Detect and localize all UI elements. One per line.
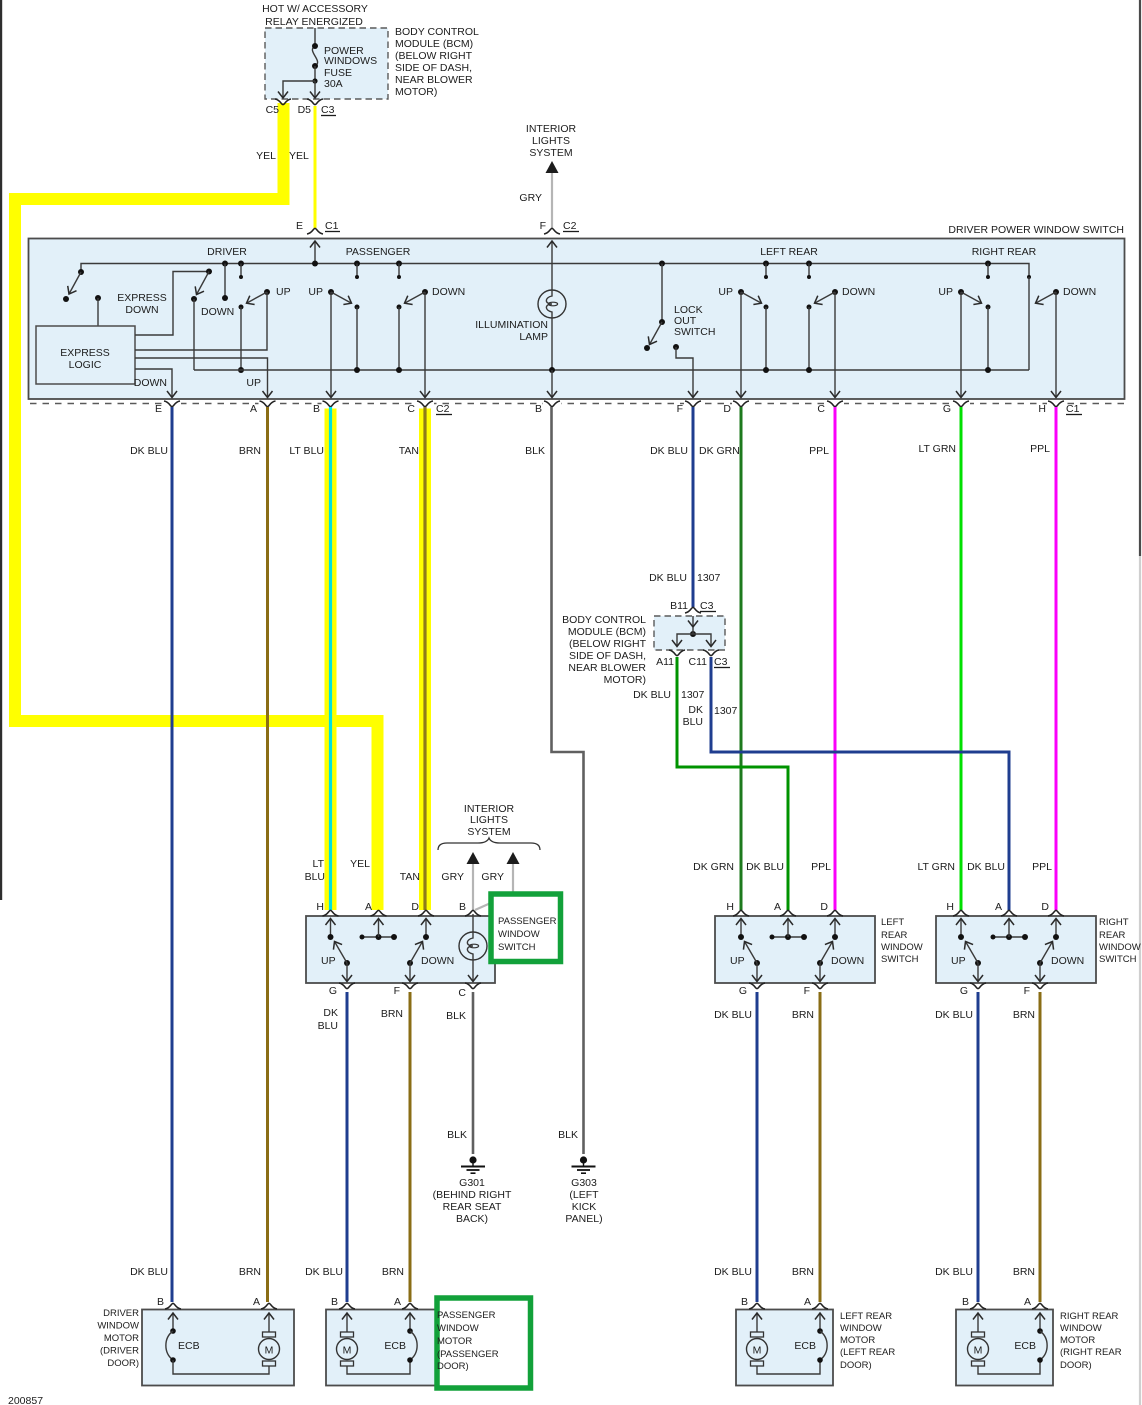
- svg-text:TAN: TAN: [400, 871, 420, 883]
- svg-text:REAR: REAR: [1099, 930, 1126, 941]
- passenger switch illumination lamp: [459, 932, 487, 960]
- svg-text:DOWN: DOWN: [421, 955, 454, 967]
- wire TAN from C/C2 to passenger switch D: [423, 407, 426, 910]
- terminal A11 of BCM: [669, 650, 685, 656]
- yellow highlight band over LT BLU wire B: [325, 406, 337, 911]
- illumination lamp feed from F/C2, arrow up: [551, 241, 553, 264]
- svg-text:NEAR BLOWER: NEAR BLOWER: [395, 74, 473, 86]
- svg-text:DK BLU: DK BLU: [746, 861, 784, 873]
- off-page arrow GRY right: [507, 852, 520, 864]
- wire (drawn green) from BCM A11 to left rear switch A: [677, 657, 788, 910]
- svg-text:DK GRN: DK GRN: [699, 445, 740, 457]
- svg-text:C: C: [407, 403, 415, 415]
- svg-text:M: M: [974, 1345, 983, 1357]
- lock out output contact to terminal F with arrow: [673, 344, 679, 350]
- right rear UP blade: [961, 292, 982, 303]
- svg-text:UP: UP: [321, 955, 336, 967]
- passenger window motor M: [341, 1332, 354, 1337]
- svg-text:D: D: [1041, 901, 1049, 913]
- lock out switch blade: [659, 319, 665, 325]
- terminal B11 / C3 on BCM: [685, 607, 701, 613]
- illumination lamp: [538, 290, 566, 318]
- left rear UP switch pivot to terminal D: [738, 289, 744, 295]
- svg-text:B: B: [741, 1296, 748, 1308]
- svg-text:RELAY ENERGIZED: RELAY ENERGIZED: [265, 16, 363, 28]
- right rear motor bottom link: [978, 1360, 1040, 1374]
- svg-text:M: M: [343, 1345, 352, 1357]
- svg-text:SWITCH: SWITCH: [881, 954, 919, 965]
- left rear motor terminal A: [812, 1303, 828, 1309]
- left rear down lower contact column: [807, 305, 812, 310]
- svg-text:DK BLU: DK BLU: [130, 1266, 168, 1278]
- driver down contact to internal return rail: [193, 299, 195, 370]
- left rear UP blade: [754, 960, 760, 966]
- svg-text:D: D: [723, 403, 731, 415]
- svg-text:BRN: BRN: [792, 1009, 814, 1021]
- passenger switch D leg arrow up: [425, 919, 427, 938]
- wire BRN left rear F to motor A: [819, 992, 822, 1302]
- svg-text:SIDE OF DASH,: SIDE OF DASH,: [569, 650, 646, 662]
- terminal H / C1 bottom: [1048, 401, 1064, 407]
- page right border line (dark upper part): [1139, 0, 1141, 556]
- terminal B bottom (LT BLU): [323, 401, 339, 407]
- svg-text:BLK: BLK: [558, 1129, 578, 1141]
- svg-text:BODY CONTROL: BODY CONTROL: [395, 26, 479, 38]
- passenger switch A leg arrow up: [378, 919, 380, 938]
- driver motor terminal A: [261, 1303, 277, 1309]
- svg-text:F: F: [540, 220, 546, 232]
- left rear switch H leg arrow up: [740, 919, 742, 938]
- page right border line (light lower part): [1139, 556, 1141, 1405]
- internal return rail: [194, 369, 1029, 371]
- svg-text:G: G: [943, 403, 951, 415]
- right rear switch terminal F bottom: [1032, 983, 1048, 989]
- yellow highlight band over TAN wire C: [419, 406, 431, 911]
- svg-text:LIGHTS: LIGHTS: [532, 135, 570, 147]
- left rear switch terminal G bottom: [749, 983, 765, 989]
- svg-text:(LEFT REAR: (LEFT REAR: [840, 1347, 895, 1358]
- svg-text:B: B: [157, 1296, 164, 1308]
- wire from fuse to junction: [314, 66, 316, 81]
- express logic module box: [36, 326, 135, 384]
- svg-text:UP: UP: [308, 286, 323, 298]
- svg-text:BRN: BRN: [381, 1008, 403, 1020]
- svg-text:A: A: [365, 901, 372, 913]
- svg-text:BRN: BRN: [1013, 1009, 1035, 1021]
- svg-text:B: B: [962, 1296, 969, 1308]
- driver up pivot lead to logic L2: [135, 292, 267, 350]
- driver motor B leg arrow up: [172, 1313, 174, 1331]
- passenger up lower contact and column: [355, 305, 360, 310]
- svg-text:BODY CONTROL: BODY CONTROL: [562, 614, 646, 626]
- wire BRN right rear F to motor A: [1039, 992, 1042, 1302]
- svg-text:G303: G303: [571, 1177, 597, 1189]
- svg-text:PPL: PPL: [1032, 861, 1052, 873]
- fuse feed wire inside box: [314, 28, 316, 46]
- svg-text:B: B: [331, 1296, 338, 1308]
- internal supply bus of driver switch: [81, 264, 1029, 278]
- right rear UP switch pivot to terminal G: [958, 289, 964, 295]
- svg-text:H: H: [726, 901, 734, 913]
- svg-text:YEL: YEL: [350, 858, 370, 870]
- passenger UP switch bus stub: [354, 261, 360, 267]
- right rear window motor M: [972, 1332, 985, 1337]
- svg-text:WINDOW: WINDOW: [881, 942, 923, 953]
- svg-text:SYSTEM: SYSTEM: [467, 826, 510, 838]
- driver motor circuit breaker ECB: [170, 1328, 176, 1334]
- svg-text:DRIVER: DRIVER: [103, 1308, 139, 1319]
- driver power window switch box body: [29, 239, 1125, 400]
- svg-text:YEL: YEL: [289, 150, 309, 162]
- svg-text:F: F: [804, 985, 810, 997]
- svg-text:PASSENGER: PASSENGER: [437, 1310, 496, 1321]
- svg-text:(PASSENGER: (PASSENGER: [437, 1349, 499, 1360]
- svg-text:REAR SEAT: REAR SEAT: [443, 1201, 502, 1213]
- left rear switch terminal H top: [733, 910, 749, 916]
- svg-text:MOTOR: MOTOR: [840, 1335, 875, 1346]
- svg-text:M: M: [265, 1345, 274, 1357]
- page left border line: [0, 0, 2, 900]
- left rear window motor M: [751, 1332, 764, 1337]
- svg-text:LT: LT: [313, 858, 325, 870]
- passenger window motor box body: [326, 1310, 436, 1386]
- right rear D leg arrow up: [1055, 919, 1057, 938]
- svg-text:LT BLU: LT BLU: [289, 445, 324, 457]
- passenger UP switch blade: [328, 289, 334, 295]
- svg-text:F: F: [394, 985, 400, 997]
- svg-text:BRN: BRN: [382, 1266, 404, 1278]
- passenger switch terminal C bottom: [465, 983, 481, 989]
- left rear A leg arrow up: [787, 919, 789, 938]
- wire DK BLU from F to BCM B11: [692, 407, 695, 607]
- express-down sense contact dot: [63, 296, 69, 302]
- svg-text:DK BLU: DK BLU: [935, 1009, 973, 1021]
- BCM internal: entry arrow down to junction: [692, 616, 694, 627]
- svg-text:BRN: BRN: [1013, 1266, 1035, 1278]
- svg-text:UP: UP: [718, 286, 733, 298]
- logic lead L3 to terminal A with arrow: [135, 358, 268, 398]
- svg-text:LIGHTS: LIGHTS: [470, 814, 508, 826]
- wire PPL from H/C1 to right rear switch D: [1055, 407, 1058, 910]
- BCM internal branch to C11 arrow: [693, 634, 711, 647]
- svg-text:C1: C1: [325, 220, 339, 232]
- svg-text:EXPRESS: EXPRESS: [117, 292, 167, 304]
- passenger DOWN switch blade: [422, 289, 428, 295]
- BCM internal branch to A11 arrow: [677, 634, 693, 647]
- power windows fuse 30A element: [312, 46, 317, 66]
- svg-text:REAR: REAR: [881, 930, 908, 941]
- GRY wire left to passenger B: [472, 864, 474, 910]
- driver motor A leg arrow up: [268, 1313, 270, 1332]
- svg-text:DK BLU: DK BLU: [967, 861, 1005, 873]
- left rear DOWN switch pivot to terminal C: [832, 289, 838, 295]
- annotation green box: passenger window switch: [491, 894, 561, 962]
- svg-text:DK BLU: DK BLU: [633, 689, 671, 701]
- svg-text:WINDOW: WINDOW: [840, 1323, 882, 1334]
- left rear UP bus stub: [763, 261, 769, 267]
- driver up lower contact and column: [239, 305, 244, 310]
- svg-text:DRIVER: DRIVER: [207, 246, 247, 258]
- svg-text:C: C: [817, 403, 825, 415]
- svg-text:MOTOR): MOTOR): [604, 674, 646, 686]
- ground G301: [469, 1156, 476, 1163]
- left rear DOWN blade: [817, 960, 823, 966]
- right rear leg to F arrow down: [1039, 963, 1041, 982]
- passenger motor bottom link: [347, 1360, 410, 1374]
- right rear down contact column (bus end): [1027, 275, 1031, 279]
- passenger down lower contact and column: [397, 305, 402, 310]
- driver window motor M: [263, 1332, 276, 1337]
- svg-text:DOOR): DOOR): [840, 1360, 872, 1371]
- svg-text:G301: G301: [459, 1177, 485, 1189]
- left rear UP blade: [741, 292, 762, 303]
- svg-text:HOT W/ ACCESSORY: HOT W/ ACCESSORY: [262, 3, 368, 15]
- brace over GRY wires: [438, 838, 540, 850]
- svg-text:D: D: [411, 901, 419, 913]
- svg-text:A: A: [1024, 1296, 1031, 1308]
- svg-text:C3: C3: [714, 656, 728, 668]
- terminal D5 / C3 of fuse box: [307, 99, 323, 105]
- passenger switch terminal H top: [323, 910, 339, 916]
- svg-text:A: A: [774, 901, 781, 913]
- right rear UP bus stub: [985, 261, 991, 267]
- left rear DOWN bus stub: [806, 261, 812, 267]
- terminal C / C2 bottom (TAN): [417, 401, 433, 407]
- svg-text:C2: C2: [436, 403, 450, 415]
- right rear A leg arrow up: [1008, 919, 1010, 938]
- svg-text:GRY: GRY: [481, 871, 504, 883]
- svg-text:A: A: [253, 1296, 260, 1308]
- wire BRN from A to driver motor A: [266, 407, 269, 1302]
- svg-text:DK BLU: DK BLU: [130, 445, 168, 457]
- driver DOWN switch blade: [206, 269, 212, 275]
- passenger up pivot line to terminal B with arrow: [330, 292, 332, 398]
- svg-text:BLK: BLK: [447, 1129, 467, 1141]
- wire PPL from C to left rear switch D: [834, 407, 837, 910]
- svg-text:C1: C1: [1066, 403, 1080, 415]
- svg-text:SIDE OF DASH,: SIDE OF DASH,: [395, 62, 472, 74]
- svg-text:DK: DK: [688, 704, 703, 716]
- right rear motor B leg arrow up: [977, 1313, 979, 1332]
- svg-text:UP: UP: [938, 286, 953, 298]
- svg-text:A: A: [804, 1296, 811, 1308]
- wire DK BLU right rear G to motor B: [977, 992, 980, 1302]
- svg-text:SWITCH: SWITCH: [498, 942, 536, 953]
- passenger switch UP blade: [344, 960, 350, 966]
- left rear A tie bar: [772, 936, 804, 938]
- left rear window motor box body: [736, 1310, 833, 1386]
- left rear motor circuit breaker ECB: [817, 1328, 823, 1334]
- svg-text:BLU: BLU: [318, 1020, 338, 1032]
- passenger down pivot line to terminal C with arrow: [424, 292, 426, 398]
- passenger switch terminal F bottom: [402, 983, 418, 989]
- driver UP switch blade: [264, 289, 270, 295]
- passenger switch terminal G bottom: [339, 983, 355, 989]
- wire BRN passenger F to motor A: [409, 992, 412, 1302]
- svg-text:BLU: BLU: [683, 716, 703, 728]
- svg-text:TAN: TAN: [399, 445, 419, 457]
- svg-text:UP: UP: [246, 377, 261, 389]
- svg-text:SWITCH: SWITCH: [1099, 954, 1137, 965]
- left rear window switch box body: [715, 916, 875, 983]
- right rear leg to G arrow down: [977, 963, 979, 982]
- svg-text:INTERIOR: INTERIOR: [526, 123, 577, 135]
- E/C1 feed entering box, arrow up: [314, 241, 316, 264]
- right rear switch terminal D top: [1048, 910, 1064, 916]
- svg-text:D: D: [820, 901, 828, 913]
- svg-text:ECB: ECB: [1014, 1340, 1036, 1352]
- left rear leg to G arrow down: [756, 963, 758, 982]
- yellow circuit highlight band: fuse C5 down, left, down page left, right, down to passenger A: [15, 103, 378, 910]
- right rear switch terminal A top: [1001, 910, 1017, 916]
- passenger motor A leg arrow up: [409, 1313, 411, 1331]
- svg-text:C3: C3: [321, 104, 335, 116]
- passenger lamp leg to C arrow down: [472, 960, 474, 982]
- svg-text:MOTOR: MOTOR: [437, 1336, 472, 1347]
- junction node below fuse: [312, 78, 317, 83]
- svg-text:NEAR BLOWER: NEAR BLOWER: [568, 662, 646, 674]
- driver motor bottom link: [173, 1360, 269, 1374]
- right rear motor circuit breaker ECB: [1037, 1328, 1043, 1334]
- svg-text:WINDOW: WINDOW: [1099, 942, 1141, 953]
- right rear window switch box body: [936, 916, 1096, 983]
- power windows fuse box (BCM) dashed body: [265, 28, 388, 99]
- terminal D bottom: [733, 401, 749, 407]
- svg-text:A: A: [250, 403, 257, 415]
- svg-text:DOOR): DOOR): [107, 1358, 139, 1369]
- svg-text:LEFT: LEFT: [881, 917, 904, 928]
- passenger switch terminal A top: [371, 910, 387, 916]
- svg-text:LAMP: LAMP: [519, 331, 548, 343]
- svg-text:DK GRN: DK GRN: [693, 861, 734, 873]
- svg-text:(LEFT: (LEFT: [569, 1189, 599, 1201]
- svg-text:(BEHIND RIGHT: (BEHIND RIGHT: [433, 1189, 512, 1201]
- wire DK BLU left rear G to motor B: [756, 992, 759, 1302]
- svg-text:DK BLU: DK BLU: [649, 572, 687, 584]
- svg-text:LT GRN: LT GRN: [917, 861, 955, 873]
- wire to D5 with arrow: [314, 81, 316, 98]
- left rear DOWN blade: [815, 292, 836, 303]
- YEL wire D5 to driver switch E: [314, 106, 317, 228]
- passenger switch lamp feed B: [472, 914, 474, 932]
- svg-text:1307: 1307: [681, 689, 705, 701]
- passenger motor terminal A: [402, 1303, 418, 1309]
- svg-text:(BELOW RIGHT: (BELOW RIGHT: [569, 638, 647, 650]
- left rear up lower contact column: [764, 305, 769, 310]
- svg-text:KICK: KICK: [572, 1201, 597, 1213]
- svg-text:LOGIC: LOGIC: [69, 359, 102, 371]
- svg-text:DK: DK: [323, 1007, 338, 1019]
- svg-text:G: G: [960, 985, 968, 997]
- ground G303: [580, 1156, 587, 1163]
- svg-text:DOOR): DOOR): [437, 1361, 469, 1372]
- svg-text:C5: C5: [266, 104, 280, 116]
- svg-text:SYSTEM: SYSTEM: [529, 147, 572, 159]
- svg-text:H: H: [1038, 403, 1046, 415]
- svg-text:DK BLU: DK BLU: [650, 445, 688, 457]
- wire DK BLU passenger G to motor B: [346, 992, 349, 1302]
- svg-text:BRN: BRN: [792, 1266, 814, 1278]
- driver motor terminal B: [165, 1303, 181, 1309]
- right rear DOWN switch pivot to terminal H: [1053, 289, 1059, 295]
- svg-text:DOWN: DOWN: [134, 377, 167, 389]
- svg-text:B11: B11: [670, 600, 688, 612]
- svg-text:DK BLU: DK BLU: [935, 1266, 973, 1278]
- svg-text:(BELOW RIGHT: (BELOW RIGHT: [395, 50, 473, 62]
- left rear motor bottom link: [757, 1360, 820, 1374]
- svg-text:PASSENGER: PASSENGER: [498, 916, 557, 927]
- terminal F / C2 on top of driver switch: [544, 228, 560, 234]
- right rear switch terminal G bottom: [970, 983, 986, 989]
- svg-text:DK BLU: DK BLU: [305, 1266, 343, 1278]
- GRY wire right joining passenger B: [475, 864, 513, 910]
- right rear switch H leg arrow up: [960, 919, 962, 938]
- terminal E bottom: [164, 401, 180, 407]
- right rear DOWN blade: [1036, 292, 1057, 303]
- svg-text:C2: C2: [563, 220, 577, 232]
- express logic input contact and lead: [95, 295, 101, 301]
- right rear up lower contact column: [986, 305, 991, 310]
- passenger motor circuit breaker ECB: [407, 1328, 413, 1334]
- svg-text:WINDOW: WINDOW: [1060, 1323, 1102, 1334]
- annotation green box: passenger window motor: [437, 1298, 531, 1388]
- svg-text:PPL: PPL: [1030, 443, 1050, 455]
- svg-text:B: B: [459, 901, 466, 913]
- svg-text:PASSENGER: PASSENGER: [346, 246, 411, 258]
- terminal B bottom (BLK): [544, 401, 560, 407]
- off-page arrow to interior lights: [546, 161, 559, 173]
- wire DK BLU from E to driver motor B: [171, 407, 174, 1302]
- left rear switch terminal D top: [827, 910, 843, 916]
- right rear motor terminal A: [1032, 1303, 1048, 1309]
- right rear A tie bar: [993, 936, 1025, 938]
- left rear switch terminal F bottom: [812, 983, 828, 989]
- svg-text:BRN: BRN: [239, 445, 261, 457]
- right rear window motor box body: [956, 1310, 1053, 1386]
- svg-text:UP: UP: [276, 286, 291, 298]
- svg-text:MOTOR: MOTOR: [1060, 1335, 1095, 1346]
- svg-text:1307: 1307: [714, 705, 738, 717]
- right rear DOWN blade: [1037, 960, 1043, 966]
- passenger motor terminal B: [339, 1303, 355, 1309]
- right rear motor terminal B: [970, 1303, 986, 1309]
- svg-text:A11: A11: [656, 656, 674, 668]
- svg-text:ECB: ECB: [178, 1340, 200, 1352]
- svg-text:G: G: [739, 985, 747, 997]
- passenger switch terminal D top: [418, 910, 434, 916]
- left rear motor A leg arrow up: [819, 1313, 821, 1331]
- svg-text:WINDOWS: WINDOWS: [324, 55, 377, 67]
- passenger switch H leg arrow up: [330, 919, 332, 938]
- svg-text:C3: C3: [700, 600, 714, 612]
- svg-text:B: B: [535, 403, 542, 415]
- svg-text:DOWN: DOWN: [201, 306, 234, 318]
- svg-text:PANEL): PANEL): [565, 1213, 602, 1225]
- terminal C11 / C3 of BCM: [703, 650, 719, 656]
- svg-text:PPL: PPL: [809, 445, 829, 457]
- wire BLK passenger C to ground G301: [472, 992, 475, 1154]
- left rear switch terminal A top: [780, 910, 796, 916]
- svg-text:BLK: BLK: [446, 1010, 466, 1022]
- off-page arrow GRY left: [467, 852, 480, 864]
- svg-text:G: G: [329, 985, 337, 997]
- svg-text:RIGHT REAR: RIGHT REAR: [972, 246, 1037, 258]
- lock out switch bus tap: [659, 261, 665, 267]
- svg-text:A: A: [995, 901, 1002, 913]
- wire DK GRN from D to left rear switch H: [740, 407, 743, 910]
- svg-text:RIGHT REAR: RIGHT REAR: [1060, 1311, 1119, 1322]
- svg-text:MODULE (BCM): MODULE (BCM): [395, 38, 473, 50]
